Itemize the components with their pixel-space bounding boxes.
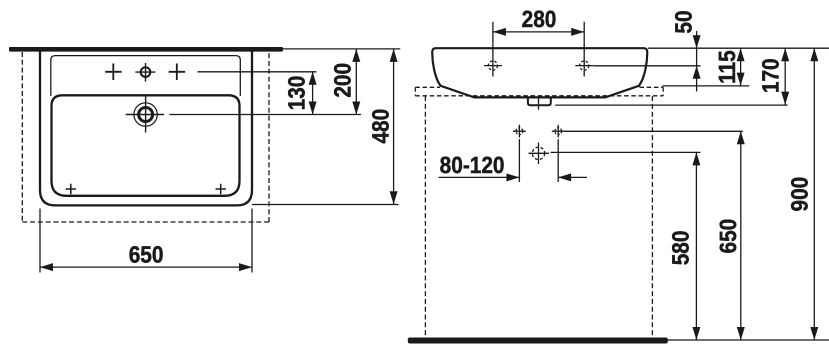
svg-text:480: 480: [367, 109, 393, 144]
svg-text:80-120: 80-120: [440, 152, 505, 178]
svg-text:170: 170: [757, 58, 783, 93]
svg-text:200: 200: [329, 63, 355, 98]
svg-text:50: 50: [670, 10, 696, 33]
svg-text:580: 580: [667, 231, 693, 266]
svg-text:130: 130: [283, 76, 309, 111]
svg-text:650: 650: [715, 219, 741, 254]
svg-text:115: 115: [714, 50, 740, 84]
svg-text:280: 280: [522, 6, 557, 32]
svg-text:650: 650: [129, 242, 164, 268]
svg-text:900: 900: [787, 177, 813, 212]
